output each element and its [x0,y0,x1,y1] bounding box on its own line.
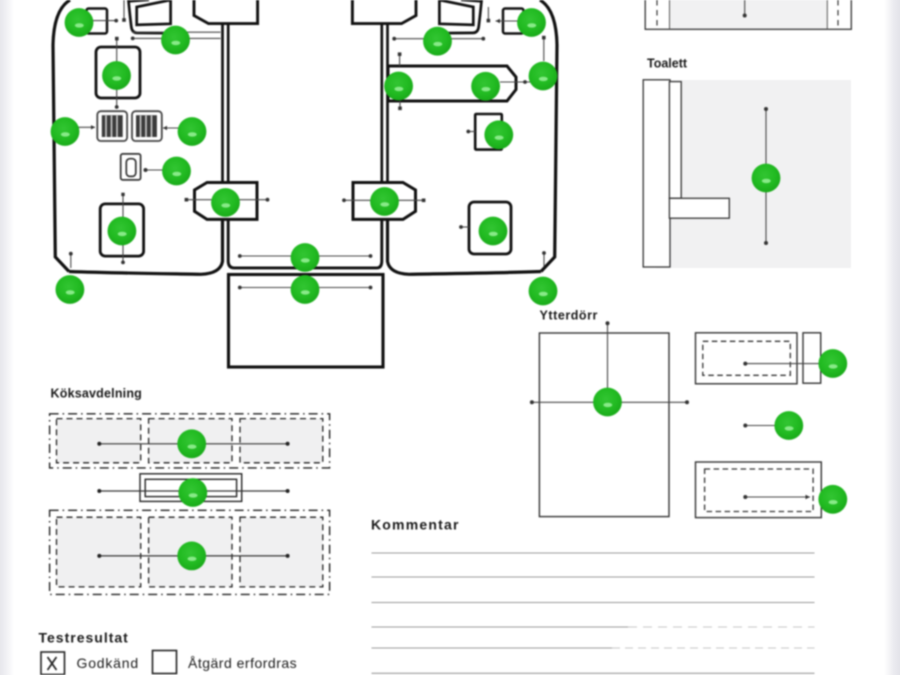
svg-text:Kommentar: Kommentar [371,517,460,533]
svg-text:Köksavdelning: Köksavdelning [51,387,143,401]
svg-text:Toalett: Toalett [647,57,688,71]
svg-text:Ytterdörr: Ytterdörr [540,309,598,323]
svg-text:Godkänd: Godkänd [77,655,139,671]
svg-text:Åtgärd erfordras: Åtgärd erfordras [188,655,297,671]
svg-text:Testresultat: Testresultat [39,630,129,646]
